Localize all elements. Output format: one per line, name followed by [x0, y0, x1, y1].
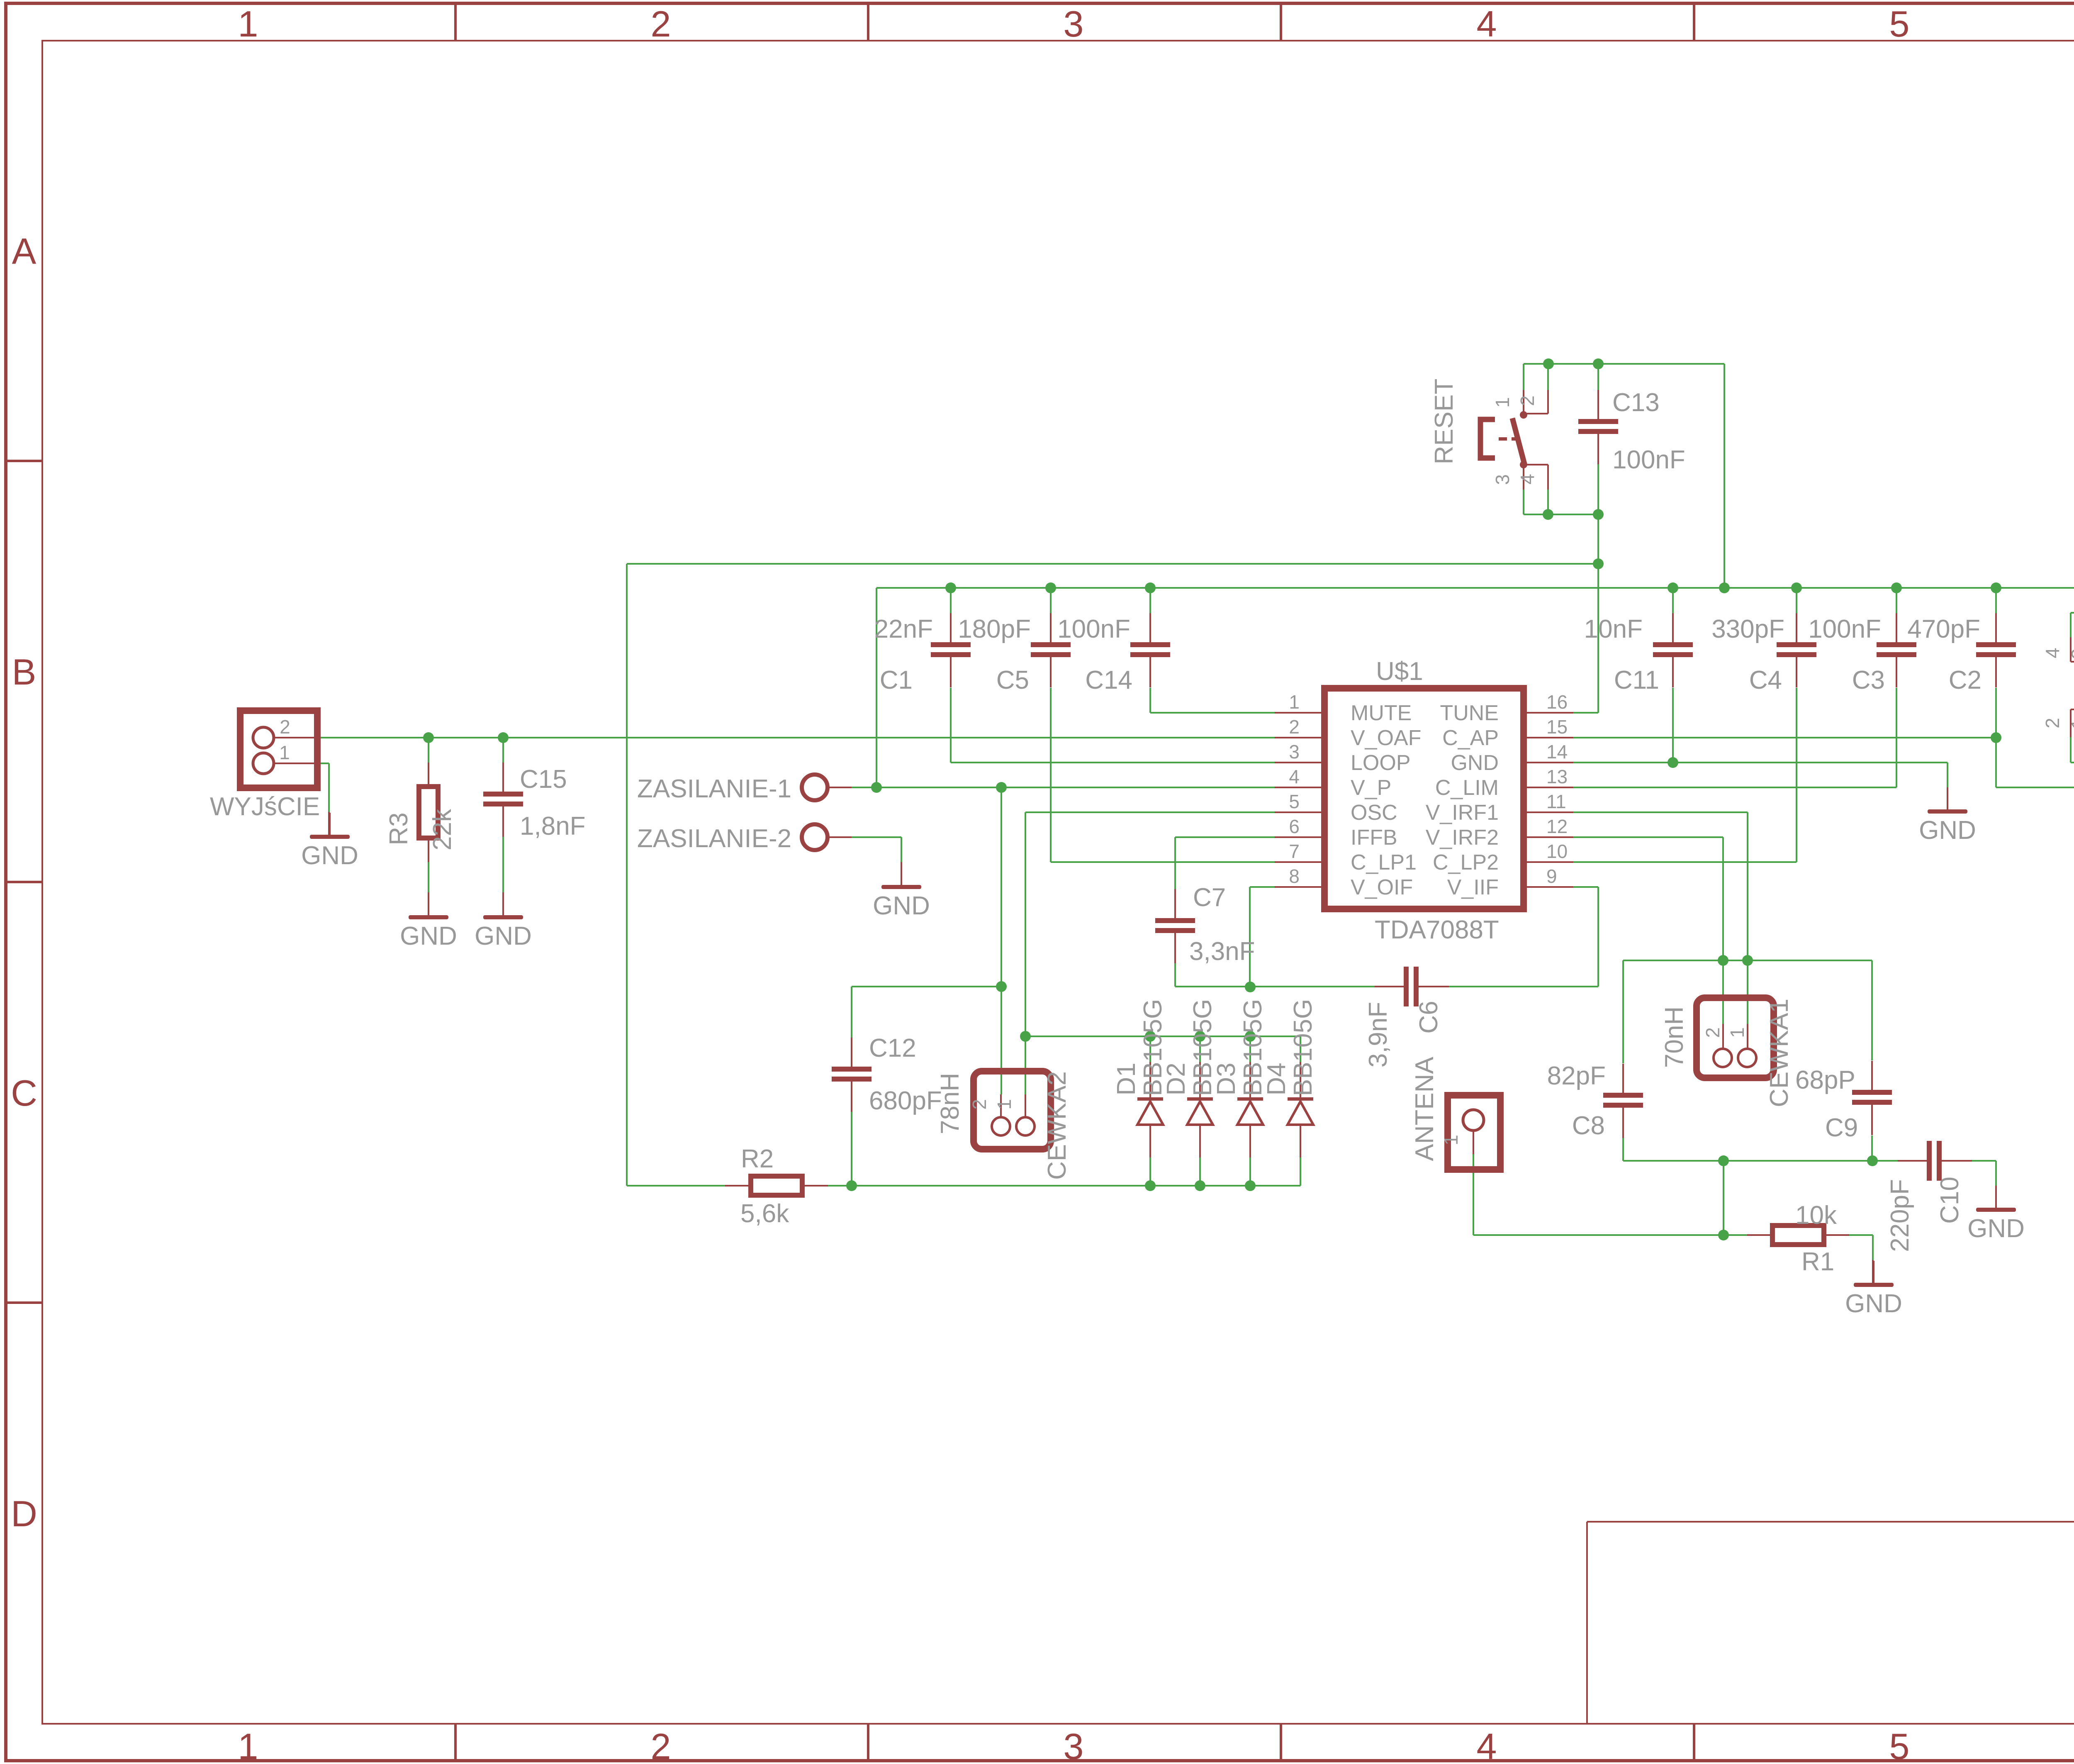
svg-text:3: 3 — [1289, 741, 1300, 763]
svg-text:ANTENA: ANTENA — [1410, 1057, 1439, 1161]
svg-text:10: 10 — [1546, 841, 1568, 862]
svg-text:C8: C8 — [1572, 1111, 1605, 1140]
svg-text:C_LIM: C_LIM — [1435, 776, 1499, 800]
svg-text:GND: GND — [873, 892, 930, 920]
svg-text:LOOP: LOOP — [1351, 751, 1411, 775]
svg-text:WYJśCIE: WYJśCIE — [210, 792, 320, 821]
svg-text:4: 4 — [1477, 3, 1497, 44]
svg-text:3: 3 — [1064, 3, 1084, 44]
svg-text:C11: C11 — [1614, 666, 1659, 694]
svg-text:GND: GND — [475, 922, 532, 950]
svg-text:R1: R1 — [1801, 1247, 1834, 1276]
svg-text:11: 11 — [1546, 791, 1566, 812]
svg-text:C10: C10 — [1935, 1177, 1964, 1224]
svg-text:13: 13 — [1546, 766, 1568, 787]
svg-text:CEWKA1: CEWKA1 — [1765, 999, 1794, 1107]
svg-text:D: D — [11, 1493, 37, 1534]
svg-text:12: 12 — [1546, 816, 1568, 837]
svg-text:2: 2 — [1702, 1027, 1723, 1038]
svg-text:TUNE: TUNE — [1440, 701, 1499, 725]
svg-text:4: 4 — [1289, 766, 1300, 787]
svg-text:14: 14 — [1546, 741, 1568, 763]
svg-text:4: 4 — [2042, 648, 2063, 658]
svg-text:100nF: 100nF — [1057, 615, 1130, 643]
svg-text:C2: C2 — [1949, 666, 1981, 694]
svg-text:180pF: 180pF — [958, 615, 1031, 643]
svg-text:ZASILANIE-2: ZASILANIE-2 — [637, 824, 791, 853]
svg-text:1: 1 — [238, 3, 258, 44]
svg-text:68pP: 68pP — [1795, 1066, 1855, 1094]
svg-text:B: B — [12, 651, 37, 692]
svg-text:3: 3 — [1492, 474, 1513, 485]
svg-text:2: 2 — [1517, 395, 1538, 406]
svg-text:5: 5 — [1289, 791, 1300, 812]
svg-text:GND: GND — [1919, 816, 1976, 845]
svg-text:680pF: 680pF — [869, 1087, 942, 1115]
svg-text:C15: C15 — [520, 765, 567, 794]
svg-text:RESET: RESET — [1430, 379, 1458, 465]
svg-text:C3: C3 — [1852, 666, 1885, 694]
svg-text:D2: D2 — [1162, 1062, 1190, 1095]
svg-text:1: 1 — [1492, 397, 1513, 408]
svg-text:U$1: U$1 — [1376, 657, 1423, 686]
svg-text:GND: GND — [1845, 1289, 1902, 1318]
svg-text:TDA7088T: TDA7088T — [1375, 916, 1499, 944]
svg-text:2: 2 — [651, 1726, 671, 1764]
svg-text:6: 6 — [1289, 816, 1300, 837]
svg-text:V_IIF: V_IIF — [1447, 875, 1499, 899]
svg-text:2: 2 — [651, 3, 671, 44]
svg-text:3: 3 — [2067, 648, 2074, 659]
svg-text:2: 2 — [1289, 716, 1300, 738]
svg-text:1: 1 — [2067, 719, 2074, 729]
svg-text:C6: C6 — [1414, 1001, 1443, 1033]
svg-text:10k: 10k — [1795, 1201, 1837, 1230]
svg-text:C_LP1: C_LP1 — [1351, 850, 1417, 875]
svg-text:2: 2 — [969, 1099, 990, 1110]
svg-text:D3: D3 — [1212, 1062, 1241, 1095]
svg-text:16: 16 — [1546, 691, 1568, 713]
svg-text:1: 1 — [238, 1726, 258, 1764]
svg-text:9: 9 — [1546, 865, 1557, 887]
svg-text:V_OIF: V_OIF — [1351, 875, 1413, 899]
svg-text:5,6k: 5,6k — [740, 1199, 789, 1228]
svg-text:1: 1 — [1440, 1135, 1462, 1145]
svg-text:1: 1 — [279, 742, 290, 763]
svg-text:V_P: V_P — [1351, 776, 1391, 800]
svg-text:4: 4 — [1477, 1726, 1497, 1764]
svg-text:C12: C12 — [869, 1034, 916, 1062]
svg-text:C4: C4 — [1749, 666, 1782, 694]
svg-text:2: 2 — [280, 716, 290, 738]
svg-text:7: 7 — [1289, 841, 1300, 862]
svg-text:5: 5 — [1889, 3, 1910, 44]
svg-text:1,8nF: 1,8nF — [520, 812, 586, 841]
svg-text:82pF: 82pF — [1547, 1062, 1606, 1090]
svg-text:5: 5 — [1889, 1726, 1910, 1764]
svg-text:GND: GND — [1967, 1214, 2025, 1243]
svg-text:GND: GND — [301, 841, 358, 870]
svg-text:1: 1 — [1289, 691, 1300, 713]
svg-text:1: 1 — [1726, 1027, 1748, 1038]
svg-text:3,9nF: 3,9nF — [1364, 1002, 1392, 1068]
svg-text:ZASILANIE-1: ZASILANIE-1 — [637, 775, 791, 803]
svg-text:A: A — [12, 231, 37, 272]
svg-text:10nF: 10nF — [1584, 615, 1643, 643]
svg-text:V_IRF2: V_IRF2 — [1426, 826, 1499, 850]
svg-text:1: 1 — [993, 1099, 1015, 1110]
svg-text:470pF: 470pF — [1907, 615, 1980, 643]
svg-text:C14: C14 — [1085, 666, 1132, 694]
svg-text:R3: R3 — [385, 812, 413, 845]
svg-text:V_OAF: V_OAF — [1351, 726, 1422, 750]
svg-text:C5: C5 — [996, 666, 1029, 694]
svg-text:C13: C13 — [1612, 388, 1660, 417]
svg-text:3: 3 — [1064, 1726, 1084, 1764]
svg-text:C_AP: C_AP — [1442, 726, 1499, 750]
svg-text:70nH: 70nH — [1660, 1006, 1689, 1068]
svg-text:R2: R2 — [741, 1145, 774, 1173]
svg-text:4: 4 — [1517, 474, 1538, 485]
svg-text:100nF: 100nF — [1612, 446, 1685, 474]
svg-text:220pF: 220pF — [1886, 1179, 1914, 1252]
svg-text:22k: 22k — [428, 809, 457, 850]
svg-text:330pF: 330pF — [1711, 615, 1784, 643]
svg-text:8: 8 — [1289, 865, 1300, 887]
svg-text:GND: GND — [1451, 751, 1499, 775]
svg-text:CEWKA2: CEWKA2 — [1043, 1071, 1071, 1180]
svg-text:BB105G: BB105G — [1289, 999, 1317, 1096]
svg-text:C: C — [11, 1072, 37, 1113]
svg-text:2: 2 — [2042, 718, 2063, 729]
svg-text:IFFB: IFFB — [1351, 826, 1397, 850]
svg-text:MUTE: MUTE — [1351, 701, 1412, 725]
svg-text:100nF: 100nF — [1808, 615, 1881, 643]
svg-text:15: 15 — [1546, 716, 1568, 738]
svg-text:D1: D1 — [1112, 1062, 1141, 1095]
svg-text:C_LP2: C_LP2 — [1433, 850, 1499, 875]
svg-text:C1: C1 — [880, 666, 913, 694]
svg-text:V_IRF1: V_IRF1 — [1426, 801, 1499, 825]
svg-text:C7: C7 — [1193, 883, 1226, 912]
svg-text:D4: D4 — [1262, 1062, 1291, 1095]
svg-text:3,3nF: 3,3nF — [1189, 937, 1255, 966]
svg-text:OSC: OSC — [1351, 801, 1397, 825]
svg-text:GND: GND — [400, 922, 457, 950]
svg-text:22nF: 22nF — [874, 615, 933, 643]
svg-text:C9: C9 — [1825, 1113, 1858, 1142]
